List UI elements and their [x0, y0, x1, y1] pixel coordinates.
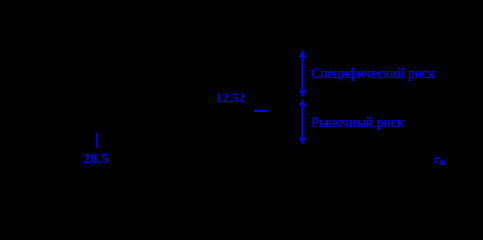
- tick mark above 28,5: [96, 133, 98, 147]
- axis label r_m: [434, 153, 447, 167]
- dash level marker: [254, 110, 267, 112]
- value label 28,5: [83, 153, 108, 167]
- arrow: market risk (double-headed vertical): [295, 97, 310, 147]
- label: Специфический риск: [311, 67, 435, 82]
- arrow: specific risk (double-headed vertical): [295, 48, 310, 100]
- value label 12,52: [216, 91, 245, 104]
- label: Рыночный риск: [311, 116, 404, 131]
